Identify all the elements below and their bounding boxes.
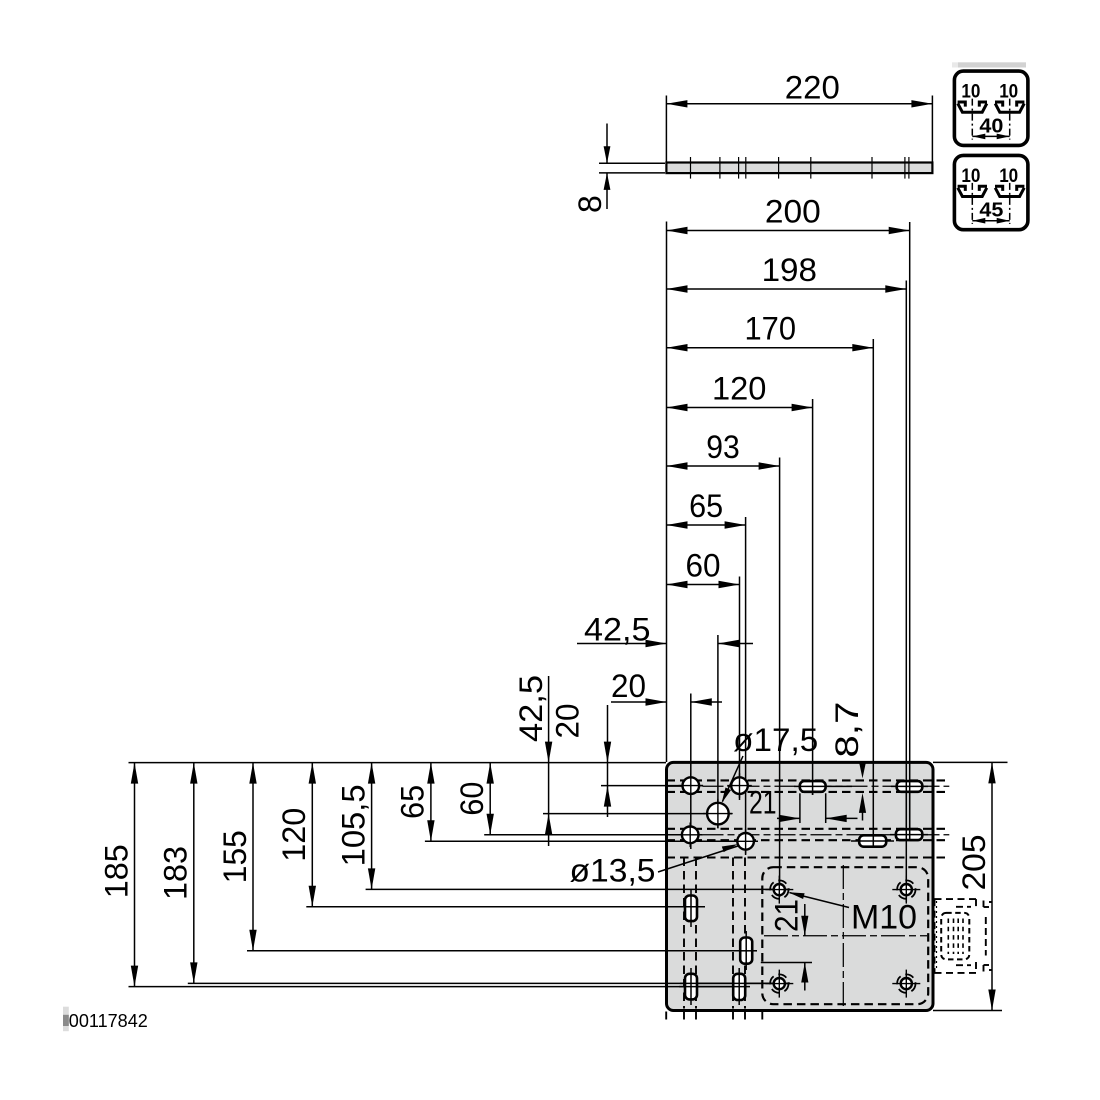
label M10 leader — [790, 893, 849, 908]
slot S4 (60/185) — [733, 974, 745, 1000]
dim 205 ext bottom — [933, 1010, 1002, 1012]
dim 42,5v line — [548, 676, 550, 846]
svg-text:00117842: 00117842 — [69, 1011, 148, 1031]
svg-text:21: 21 — [769, 899, 805, 932]
dim 155 vline — [252, 763, 254, 951]
dim 200 line — [667, 230, 910, 232]
ext line 198 col — [905, 281, 907, 903]
dim 120 arrows — [667, 404, 688, 411]
hole 13.5 #4 — [737, 833, 754, 850]
dim 20v line — [607, 705, 609, 817]
dim 185 vline — [134, 763, 136, 987]
svg-text:45: 45 — [979, 200, 1003, 222]
dim 120 varrows — [309, 763, 316, 784]
ref line 185 row — [129, 986, 738, 988]
dim 21v line — [804, 904, 806, 936]
icon box 45 — [954, 155, 1028, 229]
dim 220 line — [666, 103, 932, 105]
icon box 40 — [954, 71, 1028, 145]
dim 185 varrows — [131, 763, 138, 784]
svg-text:10: 10 — [999, 166, 1018, 187]
ext line 120 col — [812, 399, 814, 795]
ext line plate left edge col — [666, 222, 668, 763]
label dia13,5 leader — [658, 846, 739, 872]
connector right vline — [985, 917, 987, 956]
hole 13.5 #1 — [683, 777, 700, 794]
dim 42,5v arrows — [545, 742, 552, 763]
svg-text:170: 170 — [745, 311, 797, 347]
M10 hole bottom-left — [770, 974, 788, 992]
centre line row1 — [667, 785, 950, 787]
dim 183 varrows — [190, 763, 197, 784]
dim 65 varrows — [427, 763, 434, 784]
dim 105,5 varrows — [368, 763, 375, 784]
ext line 42,5 col — [717, 635, 719, 828]
dim 220 extension lines — [665, 96, 667, 162]
square centre vline — [842, 865, 844, 1007]
svg-text:105,5: 105,5 — [335, 784, 371, 866]
groove dashed vline x=733 — [732, 858, 734, 1009]
square centre hline — [764, 935, 927, 937]
dim 200 arrows — [667, 227, 688, 234]
ext through slot A — [812, 781, 814, 795]
svg-text:93: 93 — [706, 429, 740, 465]
connector inner rounded box — [941, 913, 969, 960]
dim 205 arrows — [988, 762, 995, 783]
svg-text:10: 10 — [961, 82, 980, 103]
ref through S3 S4 — [679, 986, 750, 988]
ext 198 through slot B/D — [905, 781, 907, 841]
svg-text:20: 20 — [549, 704, 585, 739]
hole 13.5 #2 — [731, 777, 748, 794]
dim 170 arrows — [667, 344, 688, 351]
connector top hook — [983, 901, 985, 908]
dim 93 arrows — [667, 462, 688, 469]
groove dashed line y=828.8 — [667, 828, 950, 830]
dim 120 line — [667, 407, 813, 409]
dim 21v ref line — [761, 962, 812, 964]
connector inner vlines — [947, 919, 949, 955]
dim 21v arrows — [801, 916, 808, 936]
dim 105,5 vline — [371, 763, 373, 890]
svg-text:20: 20 — [611, 668, 646, 704]
dim 205 line — [991, 762, 993, 1010]
svg-text:200: 200 — [765, 194, 821, 230]
slot S1 (20/120) — [685, 896, 697, 922]
dashed mounting square — [762, 867, 928, 1004]
dim 20h line — [611, 701, 667, 703]
dim 60 varrows — [487, 763, 494, 784]
svg-text:198: 198 — [762, 252, 817, 288]
dim 21h ext lines — [799, 793, 801, 823]
dim 183 vline — [193, 763, 195, 984]
groove dashed vline x=696 — [695, 858, 697, 1009]
ext line 20 col — [690, 694, 692, 850]
dim 42,5h line — [577, 643, 667, 645]
svg-text:155: 155 — [217, 830, 253, 883]
dim 42,5h arrows — [646, 640, 667, 647]
top reference line (plate top row) — [129, 762, 667, 764]
slot C (170/65) — [859, 835, 886, 846]
centre line row2 — [667, 834, 950, 836]
ref line 20v row (hole row 1) — [601, 785, 703, 787]
svg-text:120: 120 — [276, 808, 312, 862]
ref through S2 — [741, 950, 757, 952]
M10 hole bottom-right — [897, 974, 915, 992]
svg-text:60: 60 — [454, 782, 490, 816]
ext line 170 col — [872, 339, 874, 848]
footer gray marks — [63, 1007, 69, 1031]
svg-text:8: 8 — [572, 195, 608, 213]
svg-text:183: 183 — [158, 846, 194, 900]
dim 220 arrows — [666, 100, 687, 107]
slot S2 (65/155) — [740, 938, 752, 964]
ref line 105,5 row — [366, 888, 790, 890]
gray strip above icons — [952, 62, 958, 67]
slot D (200/60) — [896, 829, 922, 840]
svg-text:205: 205 — [956, 834, 992, 890]
dim 8,7 arrows — [859, 761, 866, 778]
dim 65 vline — [430, 763, 432, 842]
slot A (120/20) — [800, 781, 826, 792]
svg-text:220: 220 — [785, 70, 840, 106]
M10 hole top-left — [770, 880, 788, 898]
dim 155 varrows — [249, 763, 256, 784]
groove dashed vline x=666 below plate — [665, 1012, 667, 1023]
dim 170 line — [667, 347, 874, 349]
svg-text:120: 120 — [712, 371, 766, 407]
connector bottom hook — [983, 965, 985, 972]
dim 198 arrows — [667, 285, 688, 292]
dim 21h arrows — [779, 815, 800, 822]
connector fine dotted line — [936, 901, 938, 970]
svg-text:60: 60 — [686, 548, 721, 584]
ext line 65 col — [745, 517, 747, 855]
ref line 60 row — [484, 834, 702, 836]
dim 21h line — [777, 817, 800, 819]
groove dashed line y=840.2 — [667, 839, 950, 841]
ext line 200 col — [909, 222, 911, 840]
dim 60 arrows — [667, 581, 688, 588]
svg-text:40: 40 — [979, 115, 1003, 137]
ref line 42,5v row (big hole) — [543, 813, 732, 815]
slot B (200/20) — [897, 781, 923, 792]
svg-text:65: 65 — [395, 785, 431, 819]
ext through slot C — [872, 835, 874, 847]
dim 8 line upper — [606, 124, 608, 164]
svg-text:21: 21 — [749, 785, 777, 821]
svg-text:10: 10 — [999, 82, 1018, 103]
svg-text:10: 10 — [961, 166, 980, 187]
dim 8,7 line lower — [862, 809, 864, 821]
groove dashed line y=857.5 — [667, 856, 950, 858]
groove dashed vline x=684 — [683, 858, 685, 1009]
dim 93 line — [667, 465, 780, 467]
groove dashed vline x=745 — [744, 858, 746, 1009]
dim 60 line — [667, 584, 740, 586]
ref through S1 — [679, 906, 705, 908]
dim 20v arrows — [604, 742, 611, 763]
connector outer dashed box — [935, 898, 977, 900]
dim 205 ext top — [933, 761, 1008, 763]
ref line 183 row — [188, 982, 790, 984]
svg-text:8,7: 8,7 — [829, 702, 865, 758]
M10 hole top-right — [897, 880, 915, 898]
connector top bar — [956, 906, 971, 908]
svg-text:42,5: 42,5 — [513, 675, 549, 742]
hole 13.5 #3 — [682, 827, 699, 844]
groove dashed vline x=762 below plate — [761, 1012, 763, 1023]
svg-text:65: 65 — [689, 488, 723, 524]
svg-text:ø13,5: ø13,5 — [570, 853, 656, 889]
dim 65 line — [667, 524, 746, 526]
hole 17.5 big — [707, 803, 729, 825]
dim 198 line — [667, 288, 907, 290]
ext through slot B and D — [909, 781, 911, 840]
ref line 155 row — [247, 950, 757, 952]
label dia17,5 leader — [723, 756, 744, 802]
dim 8 line lower — [606, 173, 608, 209]
side view plate bar — [666, 163, 932, 174]
main plate body — [667, 762, 934, 1010]
ext line 60 col — [739, 577, 741, 801]
dim 20h arrows — [646, 698, 667, 705]
groove dashed line y=780.4 — [667, 779, 950, 781]
dim 60 vline — [489, 763, 491, 835]
svg-text:ø17,5: ø17,5 — [733, 722, 818, 758]
slot S3 (20/185) — [685, 974, 697, 1000]
dim 8 extension lines — [599, 162, 665, 164]
dim 120 vline — [311, 763, 313, 907]
connector bottom bar — [956, 964, 971, 966]
svg-text:M10: M10 — [851, 899, 917, 937]
ext line 93 col — [779, 458, 781, 898]
dim 65 arrows — [667, 521, 688, 528]
groove dashed line y=791.9 — [667, 791, 950, 793]
side view hole position ticks — [691, 157, 909, 179]
ref line 65 row — [425, 840, 758, 842]
svg-text:42,5: 42,5 — [584, 612, 651, 648]
ref line 120 row — [306, 906, 705, 908]
svg-text:185: 185 — [98, 844, 134, 898]
dim 8 arrows — [604, 146, 611, 163]
